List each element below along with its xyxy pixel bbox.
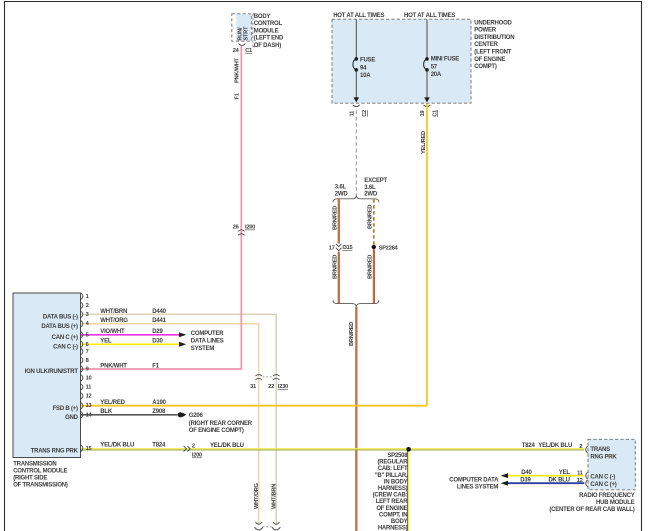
fuse F94 10A (353, 57, 375, 79)
svg-text:BODY: BODY (254, 14, 271, 20)
svg-text:(LEFT END: (LEFT END (254, 36, 284, 42)
svg-text:CAB: LEFT: CAB: LEFT (378, 466, 408, 472)
svg-text:CENTER: CENTER (474, 42, 498, 48)
connector C1 of BCM, pin 24 (233, 44, 252, 55)
svg-text:OF ENGINE: OF ENGINE (376, 506, 407, 512)
wire VIO/WHT D29 from TCM pin 5 (81, 334, 179, 336)
svg-text:IGN ULK/RUN/STRT: IGN ULK/RUN/STRT (25, 369, 79, 375)
svg-text:I230: I230 (278, 384, 288, 390)
svg-text:YEL: YEL (559, 470, 571, 476)
svg-text:15: 15 (86, 446, 92, 452)
wire YEL/DK BLU branch from splice SP2508 down to page bottom (408, 451, 409, 531)
svg-text:11: 11 (86, 384, 92, 390)
svg-text:SP2508: SP2508 (387, 453, 408, 459)
svg-text:TRANS RNG PRK: TRANS RNG PRK (31, 449, 79, 455)
svg-text:FUSE: FUSE (360, 58, 375, 64)
svg-text:COMPT): COMPT) (474, 64, 497, 70)
RF hub pin labels (590, 447, 617, 488)
svg-text:(CENTER OF REAR CAB WALL): (CENTER OF REAR CAB WALL) (549, 507, 634, 513)
svg-text:OF ENGINE: OF ENGINE (474, 57, 505, 63)
module UPDC (Underhood Power Distribution Center) (332, 19, 471, 103)
svg-text:8: 8 (86, 358, 89, 364)
svg-text:I200: I200 (245, 225, 255, 231)
svg-text:I315: I315 (342, 245, 352, 251)
svg-text:WHT/BRN: WHT/BRN (272, 484, 278, 509)
wire labels D39 DK BLU pin 12 (520, 478, 582, 485)
svg-text:I200: I200 (192, 453, 202, 459)
svg-text:DK BLU: DK BLU (548, 478, 569, 484)
svg-text:G206: G206 (189, 413, 204, 419)
RF hub pin 12 connector arc (586, 480, 588, 487)
wire YEL/RED A190 from TCM pin 13 (horizontal run) (81, 405, 427, 407)
svg-text:OF DASH): OF DASH) (254, 43, 281, 49)
wire BLK Z908 from TCM pin 14 (81, 414, 178, 416)
svg-text:YEL/DK BLU: YEL/DK BLU (210, 443, 244, 449)
wire YEL/RED from UPDC C1 pin 19 (vertical run) (421, 104, 427, 406)
wire YEL/DK BLU T824 from TCM pin 15 to RF hub pin 2 (81, 449, 584, 450)
svg-text:C2: C2 (362, 110, 368, 117)
svg-text:12: 12 (86, 393, 92, 399)
wire BRN/RED left branch (lower segment) (333, 252, 340, 304)
svg-text:BRN/RED: BRN/RED (367, 205, 373, 229)
connector I230, pin 22 (on WHT/BRN wire) (268, 375, 288, 391)
connector I230 tie line (263, 376, 273, 378)
svg-text:COMPT, IN: COMPT, IN (379, 512, 407, 518)
connector C1 of UPDC, pin 19 (420, 105, 439, 117)
svg-text:11: 11 (577, 471, 583, 477)
svg-text:1: 1 (86, 294, 89, 300)
BCM description text (254, 14, 284, 49)
svg-text:31: 31 (250, 384, 256, 390)
svg-text:(REGULAR: (REGULAR (377, 460, 408, 466)
wire YEL D40 from RF hub pin 11 (508, 475, 584, 477)
arrow to computer data lines system (pin 12) (501, 481, 508, 486)
svg-text:HARNESS): HARNESS) (378, 526, 408, 531)
fuse 94 output wire with arrow (354, 71, 360, 103)
arrow to computer data lines system (pin 5) (179, 332, 186, 337)
svg-text:HOT AT ALL TIMES: HOT AT ALL TIMES (333, 13, 384, 19)
svg-text:(LEFT FRONT: (LEFT FRONT (474, 50, 511, 56)
svg-text:3: 3 (86, 312, 89, 318)
svg-text:CAN C (+): CAN C (+) (52, 335, 78, 341)
svg-text:POWER: POWER (474, 28, 496, 34)
svg-text:MODULE: MODULE (254, 28, 279, 34)
svg-text:(CREW CAB:: (CREW CAB: (373, 493, 408, 499)
svg-text:9: 9 (86, 367, 89, 373)
svg-text:PNK/WHT: PNK/WHT (234, 57, 240, 83)
RF hub pin 11 connector arc (586, 472, 588, 479)
branch label EXCEPT 3.6L 2WD (364, 178, 387, 198)
node COMPUTER DATA LINES SYSTEM (right) (449, 478, 499, 491)
wire labels T824 YEL/DK BLU (right end of pin 15 wire) (522, 443, 583, 450)
wire BRN/RED merged (runs to page bottom) (349, 307, 357, 531)
svg-text:RNG PRK: RNG PRK (590, 454, 617, 460)
svg-text:COMPUTER: COMPUTER (191, 331, 224, 337)
mini fuse 57 output wire with arrow (424, 71, 430, 103)
svg-text:11: 11 (350, 111, 356, 117)
svg-text:10: 10 (86, 375, 92, 381)
bottom connector on WHT/BRN wire (272, 522, 280, 530)
svg-text:DATA BUS (+): DATA BUS (+) (41, 324, 78, 330)
wire BRN/RED right branch (lower segment) (367, 249, 374, 303)
mini fuse F57 20A (424, 57, 460, 79)
svg-text:7: 7 (86, 349, 89, 355)
branch label 3.6L 2WD (335, 185, 349, 198)
fuse 94 feed wire (355, 20, 357, 58)
wire BRN/RED right branch dashed (upper segment) (367, 199, 373, 244)
svg-text:2WD: 2WD (364, 192, 378, 198)
svg-text:C1: C1 (245, 48, 252, 54)
wire WHT/ORG D441 from TCM pin 4 (runs to page bottom) (81, 324, 259, 525)
connector I200, pin 2 (on YEL/DK BLU wire) (184, 444, 202, 459)
svg-text:T824: T824 (152, 443, 166, 449)
svg-text:OF ENGINE COMPT): OF ENGINE COMPT) (189, 428, 244, 434)
svg-text:C1: C1 (432, 110, 438, 117)
TCM description text (13, 461, 68, 488)
svg-text:3.6L: 3.6L (335, 185, 347, 191)
svg-text:OF TRANSMISSION): OF TRANSMISSION) (13, 483, 68, 489)
svg-text:GND: GND (65, 415, 79, 421)
connector I230, pin 31 (on WHT/ORG wire) (250, 375, 262, 391)
arrow to computer data lines system (pin 6) (179, 342, 186, 347)
svg-text:LEFT REAR: LEFT REAR (376, 499, 409, 505)
svg-text:20A: 20A (431, 72, 442, 78)
svg-text:3.6L: 3.6L (364, 185, 376, 191)
svg-text:22: 22 (268, 384, 274, 390)
svg-text:17: 17 (329, 245, 335, 251)
wire DK BLU D39 from RF hub pin 12 (508, 482, 584, 484)
svg-text:(RIGHT SIDE: (RIGHT SIDE (13, 476, 47, 482)
svg-text:HOT AT ALL TIMES: HOT AT ALL TIMES (404, 13, 455, 19)
svg-text:BRN/RED: BRN/RED (333, 255, 339, 279)
svg-text:13: 13 (86, 403, 92, 409)
svg-text:STRT: STRT (244, 26, 250, 41)
svg-text:UNDERHOOD: UNDERHOOD (474, 20, 512, 26)
svg-text:BRN/RED: BRN/RED (349, 322, 355, 346)
svg-text:(RIGHT REAR CORNER: (RIGHT REAR CORNER (189, 421, 253, 427)
arrow to computer data lines system (pin 11) (501, 473, 508, 478)
UPDC description text (474, 20, 514, 70)
bottom connector on WHT/ORG wire (255, 522, 263, 530)
svg-text:LINES SYSTEM: LINES SYSTEM (457, 485, 499, 491)
svg-text:TRANSMISSION: TRANSMISSION (13, 461, 56, 467)
svg-text:CAN C (+): CAN C (+) (590, 482, 616, 488)
svg-text:CONTROL: CONTROL (254, 21, 283, 27)
svg-text:19: 19 (420, 111, 426, 117)
svg-text:CONTROL MODULE: CONTROL MODULE (13, 468, 67, 474)
svg-text:5: 5 (86, 332, 89, 338)
svg-text:YEL/RED: YEL/RED (421, 131, 427, 154)
TCM pin function labels (25, 315, 79, 455)
connector C2 of UPDC, pin 11 (350, 105, 368, 117)
svg-text:24: 24 (233, 48, 240, 54)
svg-text:D40: D40 (521, 470, 532, 476)
svg-text:BRN/RED: BRN/RED (367, 255, 373, 279)
svg-text:94: 94 (360, 65, 367, 71)
splice SP2284 (372, 245, 399, 252)
svg-text:26: 26 (233, 225, 239, 231)
BCM description bracket (253, 14, 255, 47)
svg-text:HUB MODULE: HUB MODULE (596, 500, 635, 506)
node COMPUTER DATA LINES SYSTEM (left) (191, 331, 224, 352)
svg-text:YEL/DK BLU: YEL/DK BLU (538, 443, 572, 449)
svg-text:F1: F1 (234, 93, 240, 99)
mini fuse 57 feed wire (426, 20, 428, 58)
wire YEL D30 from TCM pin 6 (81, 343, 179, 345)
module BCM (Body Control Module) (232, 14, 252, 41)
svg-text:CAN C (-): CAN C (-) (53, 345, 78, 351)
svg-text:2: 2 (192, 444, 195, 450)
module RF hub (Radio Frequency Hub Module) (588, 439, 635, 490)
svg-text:BRN/RED: BRN/RED (333, 206, 339, 230)
RF hub pin 2 connector arc (586, 446, 588, 453)
svg-text:10A: 10A (360, 73, 371, 79)
svg-text:COMPUTER DATA: COMPUTER DATA (449, 478, 499, 484)
module TCM (Transmission Control Module) (13, 293, 81, 458)
svg-text:D39: D39 (520, 478, 531, 484)
svg-text:2WD: 2WD (335, 191, 349, 197)
svg-text:YEL/DK BLU: YEL/DK BLU (100, 443, 134, 449)
svg-text:TRANS: TRANS (590, 447, 610, 453)
svg-text:57: 57 (431, 64, 438, 70)
split brace (branch point) (333, 196, 379, 203)
splice SP2508 (373, 447, 411, 531)
ground G206 (178, 412, 253, 434)
svg-text:BODY: BODY (391, 519, 408, 525)
wire PNK/WHT F1 from TCM pin 9 up to BCM C1 pin 24 (81, 46, 241, 369)
svg-text:T824: T824 (522, 443, 536, 449)
svg-text:DATA BUS (-): DATA BUS (-) (43, 315, 78, 321)
svg-text:DISTRIBUTION: DISTRIBUTION (474, 35, 514, 41)
svg-text:6: 6 (86, 342, 89, 348)
svg-text:2: 2 (86, 303, 89, 309)
merge brace (join point) (333, 300, 379, 307)
svg-text:MINI FUSE: MINI FUSE (431, 57, 460, 63)
svg-text:DATA LINES: DATA LINES (191, 339, 224, 345)
svg-text:SP2284: SP2284 (379, 246, 399, 252)
svg-text:SYSTEM: SYSTEM (191, 346, 215, 352)
TCM pin connector arcs and pin numbers 1-15 (81, 293, 93, 452)
bottom connector tie line (263, 526, 273, 528)
svg-text:EXCEPT: EXCEPT (364, 178, 387, 184)
svg-text:FSD B (+): FSD B (+) (53, 406, 78, 412)
connector I200, pin 26 (on PNK/WHT wire) (233, 225, 255, 236)
svg-text:CAN C (-): CAN C (-) (590, 474, 615, 480)
svg-text:WHT/ORG: WHT/ORG (254, 482, 260, 509)
svg-text:2: 2 (579, 444, 582, 450)
svg-text:12: 12 (577, 478, 583, 484)
svg-text:HARNESS): HARNESS) (378, 486, 408, 492)
wire WHT/BRN D440 from TCM pin 3 (runs to page bottom) (81, 314, 276, 524)
connector I315, pin 17 (329, 244, 353, 252)
TCM wire name and circuit labels (100, 309, 166, 449)
wire BRN/RED left branch (upper segment) (333, 199, 340, 243)
svg-text:"B" PILLAR,: "B" PILLAR, (375, 473, 408, 479)
RF hub description text (549, 493, 634, 513)
wire (dashed, unnamed) from UPDC C2 pin 11 down to split (355, 110, 357, 195)
svg-text:IN BODY: IN BODY (384, 479, 408, 485)
wire labels D40 YEL pin 11 (521, 470, 582, 477)
svg-text:RADIO FREQUENCY: RADIO FREQUENCY (579, 493, 635, 499)
